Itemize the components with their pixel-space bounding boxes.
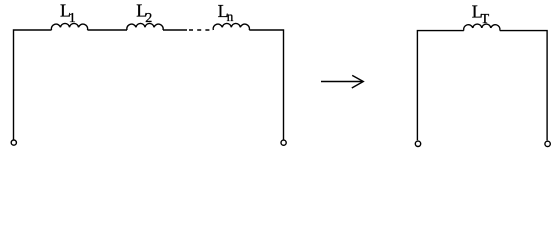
arrow shaft <box>321 81 363 83</box>
arrow head <box>352 75 364 88</box>
terminal left (right circuit) <box>415 141 420 146</box>
svg-text:n: n <box>227 9 234 24</box>
terminal left (left circuit) <box>11 140 16 145</box>
wire left vertical (left circuit) <box>14 30 52 140</box>
inductor LT coil <box>464 24 500 31</box>
terminal right (right circuit) <box>545 141 550 146</box>
wire to top-right corner and right vertical (left circuit) <box>249 30 283 140</box>
terminal right (left circuit) <box>281 140 286 145</box>
wire after L2 <box>163 29 187 31</box>
svg-text:1: 1 <box>69 11 76 26</box>
wire to top-right corner and right vertical (right circuit) <box>500 31 547 141</box>
wire between L1 and L2 <box>88 29 128 31</box>
inductor L2 coil <box>127 23 163 30</box>
inductor L1 coil <box>51 23 87 30</box>
svg-text:2: 2 <box>145 11 152 26</box>
svg-text:T: T <box>481 12 490 27</box>
wire dashed continuation <box>189 29 210 31</box>
inductor Ln coil <box>213 23 249 30</box>
wire left vertical (right circuit) <box>417 31 463 141</box>
